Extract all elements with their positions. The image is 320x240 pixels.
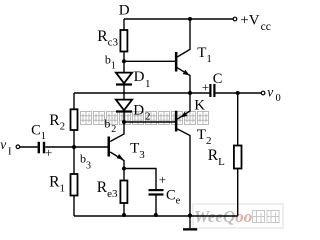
junction dot ground at rail — [188, 213, 192, 217]
svg-text:C: C — [213, 71, 223, 87]
capacitor C plates — [209, 84, 211, 97]
wire RL leads — [237, 93, 239, 146]
wire T3 emitter — [110, 152, 124, 169]
transistor T3 emitter arrow — [117, 154, 124, 160]
wire b2 to T2 base — [124, 121, 175, 123]
transistor T2 base bar — [175, 111, 178, 132]
node b3 junction dot — [72, 145, 76, 149]
wire D2 cathode to b2 — [123, 113, 125, 123]
wire Rc3 top lead — [123, 19, 125, 30]
svg-text:v: v — [267, 85, 273, 100]
junction dot Ce at rail — [154, 213, 158, 217]
watermark CJK glyphs bottom right — [253, 211, 265, 223]
junction dot T3 emitter node — [122, 167, 126, 171]
wire T2 collector down — [177, 129, 190, 216]
terminal vo — [261, 91, 265, 95]
svg-text:+: + — [45, 145, 52, 160]
wire T3 collector to b2 — [110, 122, 124, 142]
resistor RL — [234, 146, 242, 169]
diode D2 — [116, 100, 132, 112]
node b1 junction dot — [122, 59, 126, 63]
resistor R2 — [71, 109, 78, 130]
wire top rail — [20, 19, 262, 228]
junction dot top rail / T1 collector — [188, 17, 192, 21]
terminal +Vcc — [233, 17, 237, 21]
node b2 junction dot — [122, 120, 126, 124]
svg-text:0: 0 — [276, 93, 281, 104]
wire T1 emitter — [177, 68, 190, 93]
svg-text:D: D — [119, 3, 130, 19]
transistor T3 base bar — [108, 137, 111, 157]
node K junction dot — [188, 91, 192, 95]
junction dot Re3 at rail — [122, 213, 126, 217]
ground symbol — [183, 228, 197, 230]
diode D1 — [116, 73, 132, 85]
wire Re3 leads — [123, 169, 125, 181]
wire T1 collector — [177, 19, 190, 57]
watermark company text — [81, 112, 209, 125]
svg-text:+: + — [202, 80, 209, 95]
wire T2 emitter from K — [177, 93, 190, 119]
transistor T1 base bar — [175, 52, 178, 72]
transistor T1 emitter arrow — [183, 70, 190, 76]
wire bottom rail — [74, 215, 238, 217]
terminal vI — [16, 145, 20, 149]
wire D1 cathode to D2 anode — [123, 86, 125, 100]
transistor T2 emitter arrow (PNP, points to bar) — [181, 112, 188, 118]
svg-text:K: K — [194, 97, 205, 113]
capacitor Ce plates — [149, 189, 164, 191]
wire left branch vertical — [73, 93, 75, 109]
svg-text:I: I — [8, 147, 12, 158]
resistor R1 — [71, 174, 78, 196]
svg-text:v: v — [0, 137, 6, 152]
wire Rc3 bottom lead to b1 — [123, 52, 125, 73]
wire output cap to vo — [216, 92, 262, 94]
capacitor C1 plates — [38, 142, 40, 154]
watermark WeeQoo box — [193, 204, 283, 228]
resistor Re3 — [120, 181, 127, 204]
resistor Rc3 — [120, 30, 127, 52]
svg-text:+: + — [159, 172, 166, 187]
wire input row — [20, 146, 38, 148]
wire K horizontal row — [74, 92, 210, 94]
wire Ce branch — [124, 169, 156, 190]
wire b1 to T1 base — [124, 60, 175, 62]
ground stub — [189, 216, 191, 228]
junction dot output node — [236, 91, 240, 95]
